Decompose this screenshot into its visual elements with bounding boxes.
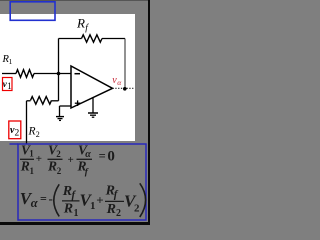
svg-text:R: R [106, 202, 116, 217]
equation box [10, 144, 147, 220]
svg-text:=: = [40, 192, 47, 206]
svg-text:2: 2 [56, 149, 61, 159]
svg-text:1: 1 [29, 149, 34, 159]
wire: feedback right vertical [124, 39, 126, 89]
svg-text:1: 1 [30, 166, 35, 176]
svg-text:0: 0 [107, 149, 115, 165]
node A summing junction dot [57, 72, 61, 76]
resistor R1 [16, 70, 34, 78]
svg-text:2: 2 [15, 129, 20, 139]
node B output junction dot [123, 87, 127, 91]
svg-text:+: + [68, 154, 74, 166]
wire: v1 input to R1 [2, 73, 16, 75]
label R1 [2, 54, 13, 66]
wire: feedback top right segment [102, 38, 125, 40]
black bottom edge [0, 222, 150, 225]
svg-text:1: 1 [74, 208, 79, 219]
source annotation v2 red box [9, 121, 21, 139]
dark top edge [0, 0, 150, 1]
wire: output dashed [113, 87, 135, 89]
svg-text:+: + [36, 153, 42, 165]
wire: node up to feedback [58, 39, 60, 74]
svg-text:1: 1 [90, 200, 96, 212]
svg-text:1: 1 [9, 57, 13, 66]
svg-text:2: 2 [36, 130, 40, 139]
label v_alpha output [112, 75, 122, 87]
equation 1: V1/R1 + V2/R2 + Va/Rf = 0 [20, 143, 115, 178]
svg-text:1: 1 [7, 81, 12, 91]
wire: v2 to R2 [27, 100, 31, 102]
svg-text:2: 2 [116, 208, 121, 219]
wire: R2 to summing node vertical [52, 74, 59, 101]
wire: v2 vertical [26, 101, 28, 144]
svg-text:R: R [28, 126, 36, 138]
resistor Rf [82, 35, 103, 42]
svg-text:-: - [49, 191, 53, 206]
wire: feedback top left segment [59, 38, 82, 40]
op-amp U1 [71, 66, 113, 108]
label Rf [76, 16, 89, 34]
svg-text:R: R [63, 201, 73, 216]
wire: noninverting input [60, 106, 72, 116]
label R2 [28, 126, 40, 139]
ground G2 at op-amp [88, 97, 98, 117]
slide gray background [0, 0, 150, 225]
wire: R1 to summing node [34, 73, 71, 75]
svg-text:R: R [76, 16, 85, 31]
source annotation v1 red box [3, 78, 13, 91]
circuit figure white background [0, 14, 135, 141]
black right edge [148, 0, 150, 225]
svg-text:2: 2 [57, 166, 62, 176]
svg-text:R: R [20, 158, 30, 173]
svg-text:2: 2 [134, 203, 140, 215]
resistor R2 [31, 97, 52, 105]
ground G1 at noninverting input [56, 117, 64, 121]
svg-text:+: + [96, 192, 103, 207]
equation 2: Va = -(Rf/R1 V1 + Rf/R2 V2) [20, 183, 146, 219]
svg-text:=: = [99, 149, 106, 163]
svg-text:R: R [47, 158, 57, 173]
svg-text:α: α [31, 196, 39, 210]
blue annotation box top-left [10, 2, 55, 21]
